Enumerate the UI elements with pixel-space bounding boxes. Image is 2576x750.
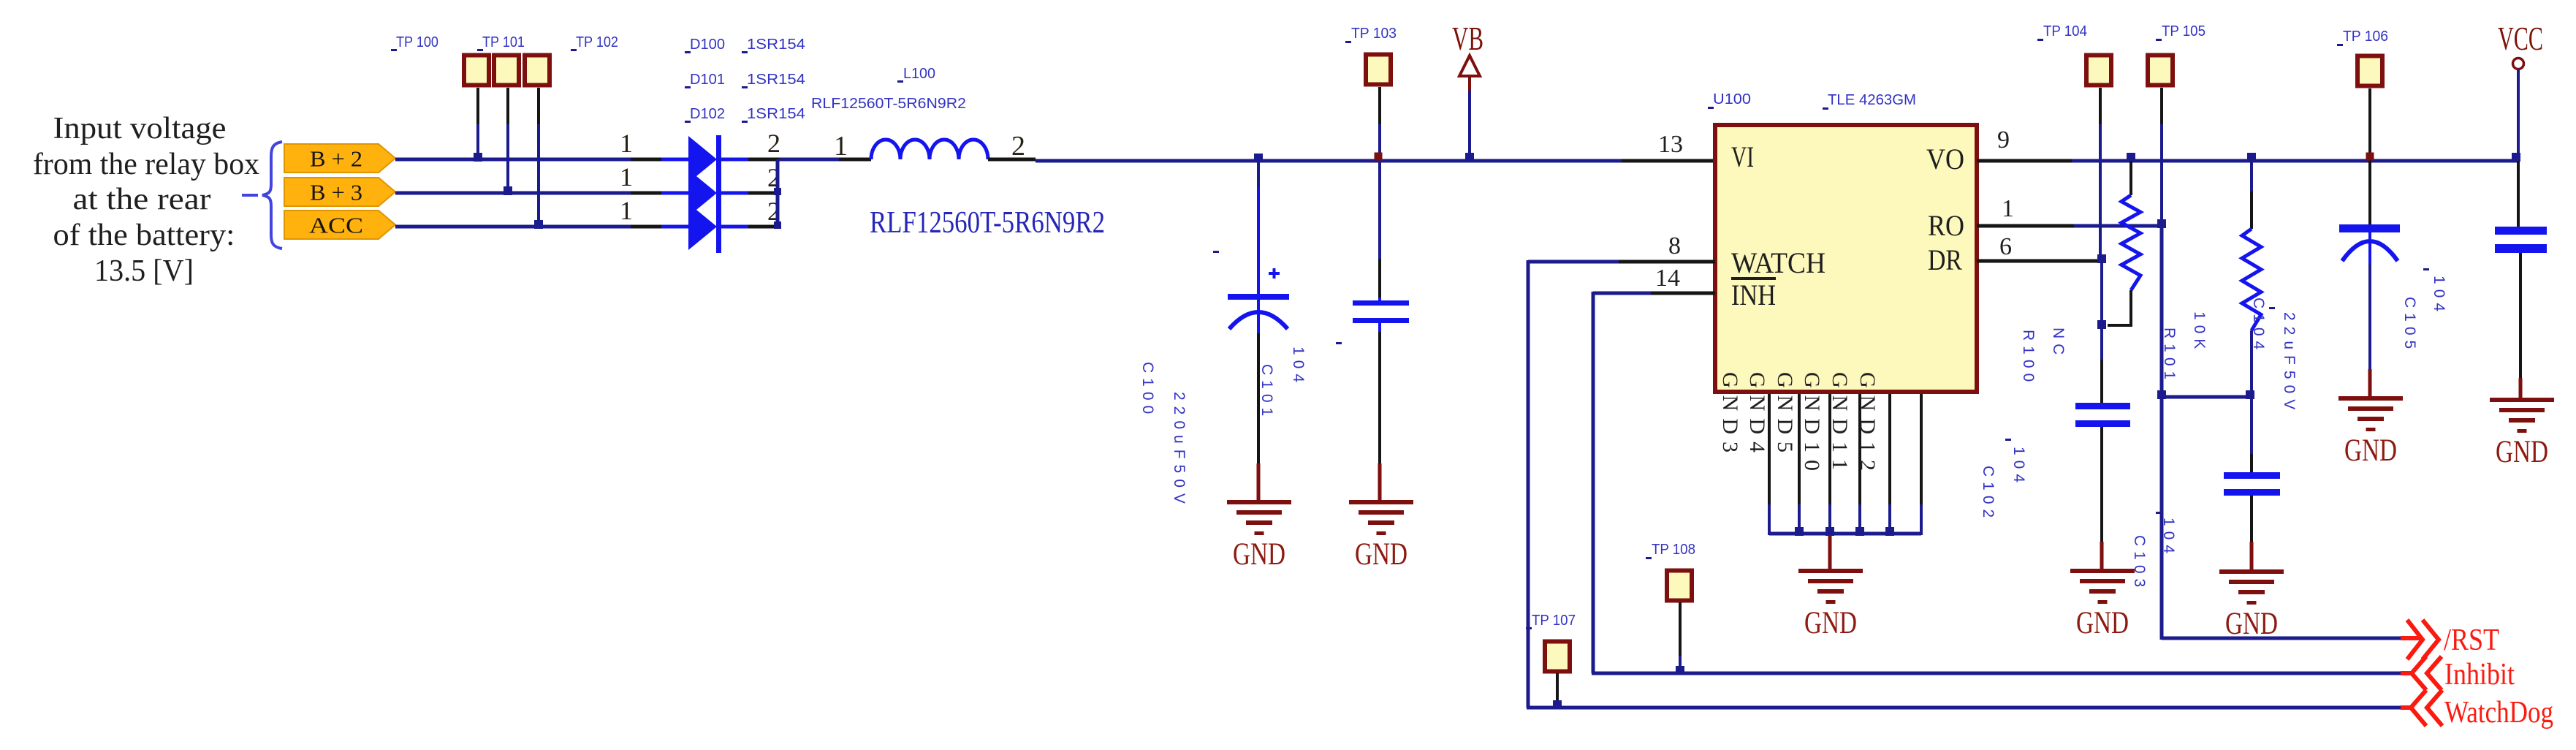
- svg-text:C103: C103: [2131, 535, 2148, 592]
- svg-text:R100: R100: [2020, 330, 2037, 387]
- svg-text:GND5: GND5: [1773, 372, 1797, 460]
- svg-text:1: 1: [620, 162, 633, 192]
- svg-text:13.5 [V]: 13.5 [V]: [94, 254, 194, 288]
- svg-text:TP 108: TP 108: [1652, 542, 1695, 558]
- svg-text:14: 14: [1655, 265, 1680, 292]
- svg-text:GND: GND: [2344, 433, 2397, 468]
- svg-text:220uF50V: 220uF50V: [1171, 392, 1188, 510]
- svg-text:WATCH: WATCH: [1731, 246, 1825, 279]
- svg-text:TP 106: TP 106: [2343, 29, 2388, 45]
- svg-text:TP 104: TP 104: [2043, 23, 2087, 39]
- svg-text:from the relay box: from the relay box: [33, 148, 259, 181]
- svg-text:C105: C105: [2401, 297, 2418, 354]
- svg-text:TLE 4263GM: TLE 4263GM: [1828, 92, 1916, 108]
- svg-text:6: 6: [1999, 233, 2012, 260]
- svg-text:WatchDog: WatchDog: [2444, 696, 2553, 730]
- svg-text:RLF12560T-5R6N9R2: RLF12560T-5R6N9R2: [870, 206, 1105, 240]
- svg-text:1: 1: [620, 129, 633, 158]
- svg-text:Inhibit: Inhibit: [2444, 658, 2515, 692]
- svg-text:GND3: GND3: [1718, 372, 1742, 460]
- svg-text:NC: NC: [2050, 327, 2067, 360]
- svg-text:of the battery:: of the battery:: [53, 219, 235, 252]
- svg-text:TP 100: TP 100: [396, 34, 438, 50]
- svg-text:1SR154: 1SR154: [747, 72, 805, 88]
- svg-text:GND: GND: [2225, 607, 2278, 641]
- svg-text:GND4: GND4: [1745, 372, 1769, 460]
- svg-text:GND: GND: [1804, 606, 1857, 640]
- svg-text:13: 13: [1658, 131, 1683, 158]
- svg-text:Input voltage: Input voltage: [53, 112, 227, 145]
- svg-text:GND10: GND10: [1800, 372, 1824, 478]
- svg-text:C102: C102: [1980, 466, 1996, 523]
- svg-text:GND: GND: [1233, 537, 1285, 572]
- svg-text:D102: D102: [690, 106, 725, 122]
- svg-text:104: 104: [2431, 276, 2447, 317]
- svg-text:R101: R101: [2161, 327, 2178, 385]
- svg-text:VB: VB: [1452, 20, 1483, 57]
- svg-text:1: 1: [620, 196, 633, 225]
- svg-text:at the rear: at the rear: [73, 183, 211, 216]
- svg-text:RO: RO: [1928, 209, 1964, 242]
- svg-text:8: 8: [1668, 232, 1681, 260]
- svg-text:RLF12560T-5R6N9R2: RLF12560T-5R6N9R2: [811, 96, 966, 112]
- svg-text:1: 1: [834, 131, 848, 162]
- svg-text:TP 105: TP 105: [2162, 23, 2205, 39]
- svg-text:TP 107: TP 107: [1532, 613, 1576, 629]
- svg-text:U100: U100: [1713, 91, 1751, 107]
- svg-text:GND11: GND11: [1828, 372, 1852, 477]
- svg-text:GND: GND: [1355, 537, 1407, 572]
- svg-text:1: 1: [2002, 195, 2014, 222]
- svg-text:C104: C104: [2250, 298, 2267, 355]
- svg-text:104: 104: [1290, 346, 1307, 387]
- svg-text:INH: INH: [1731, 279, 1776, 311]
- svg-text:104: 104: [2160, 518, 2177, 558]
- svg-text:/RST: /RST: [2444, 624, 2499, 657]
- svg-text:104: 104: [2010, 447, 2027, 488]
- svg-text:GND: GND: [2496, 435, 2548, 469]
- svg-text:22uF50V: 22uF50V: [2281, 312, 2298, 415]
- svg-text:D101: D101: [690, 72, 725, 88]
- svg-text:1SR154: 1SR154: [747, 106, 805, 122]
- svg-text:C100: C100: [1139, 362, 1156, 419]
- svg-text:GND: GND: [2076, 606, 2129, 640]
- svg-text:D100: D100: [690, 37, 725, 53]
- svg-text:GND12: GND12: [1855, 372, 1880, 478]
- svg-text:DR: DR: [1928, 243, 1962, 276]
- svg-text:VCC: VCC: [2498, 20, 2543, 57]
- svg-text:VI: VI: [1731, 140, 1754, 173]
- svg-text:ACC: ACC: [309, 213, 363, 238]
- svg-text:L100: L100: [903, 66, 935, 82]
- svg-text:TP 101: TP 101: [482, 34, 525, 50]
- svg-text:2: 2: [767, 129, 780, 158]
- svg-text:2: 2: [1011, 131, 1025, 162]
- svg-text:TP 102: TP 102: [576, 34, 618, 50]
- svg-text:B + 2: B + 2: [310, 146, 362, 172]
- svg-text:9: 9: [1997, 126, 2010, 154]
- svg-text:B + 3: B + 3: [310, 180, 362, 205]
- svg-text:10K: 10K: [2191, 311, 2208, 354]
- svg-text:TP 103: TP 103: [1351, 26, 1397, 42]
- svg-text:1SR154: 1SR154: [747, 37, 805, 53]
- svg-text:VO: VO: [1926, 143, 1964, 175]
- svg-text:C101: C101: [1258, 364, 1275, 421]
